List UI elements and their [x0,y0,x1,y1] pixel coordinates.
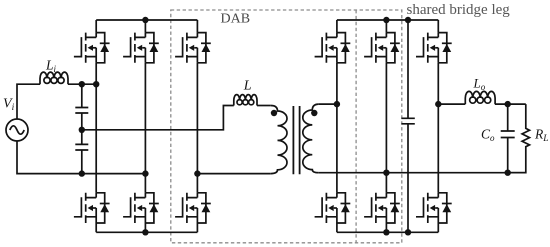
inductor L [234,95,257,106]
right bridge bottom bus [337,231,438,233]
wire right leg1 [336,20,338,232]
ac source Vi [6,119,28,141]
mosfet S5 top left3 [175,33,211,63]
wire Vi bottom return [17,141,145,174]
wire left leg1 [95,20,97,232]
mosfet S4 bottom left2 [123,193,159,223]
wire Vi top to Li [17,84,40,119]
node right top bus cap [405,17,411,23]
mosfet S6 bottom left3 [175,193,211,223]
mosfet S9 top right2 [364,33,400,63]
inductor Li [40,72,68,84]
shared bridge leg dashed divider [355,10,357,243]
wire L to transformer primary [257,105,271,107]
left bridge top bus [96,19,197,21]
node cap branch top [79,81,85,87]
wire left leg2 [144,20,146,232]
capacitor Cdiv1 [75,84,88,130]
mosfet S11 top right3 [416,33,452,63]
node leg1 mid [93,81,99,87]
left bridge bottom bus [96,231,197,233]
capacitor Cdiv2 [75,130,88,174]
wire right leg2 [385,20,387,232]
node secondary-leg1 [334,101,340,107]
capacitor Cdc [401,20,414,232]
wire leg3 to Lo [438,103,465,105]
svg-text:Lo: Lo [473,76,486,93]
svg-text:Li: Li [45,58,57,75]
node return-leg2 [383,170,389,176]
right bridge top bus [337,19,438,21]
DAB dashed box [171,10,402,243]
svg-text:Co: Co [481,127,495,144]
node left leg2 mid [142,170,148,176]
node left leg3 mid [194,170,200,176]
node right bottom bus cap [405,229,411,235]
mosfet S1 top left1 [74,33,110,63]
svg-text:DAB: DAB [221,12,251,27]
svg-text:L: L [243,79,252,94]
capacitor Co [501,104,515,173]
wire secondary bottom output return [319,172,526,174]
wire left leg3 [196,20,198,232]
transformer secondary winding [303,104,319,173]
node right leg3 mid [435,101,441,107]
transformer primary winding [271,106,287,174]
mosfet S3 top left2 [123,33,159,63]
node right bottom bus leg2 [383,229,389,235]
resistor RL [508,104,530,173]
wire secondary top to right leg1 [319,103,337,105]
wire Li to leg1 node [68,83,96,85]
mosfet S7 top right1 [315,33,351,63]
transformer core [293,106,299,174]
polarity dot secondary [311,110,317,116]
node Co top [505,101,511,107]
node left bottom bus leg2 [142,229,148,235]
node left top bus leg2 [142,17,148,23]
node cap bottom [79,170,85,176]
wire Lo to output corner [495,103,526,105]
polarity dot primary [271,110,277,116]
node right top bus leg2 [383,17,389,23]
svg-text:RL: RL [534,127,549,145]
mosfet S8 bottom right1 [315,193,351,223]
wire right leg3 [437,20,439,232]
mosfet S2 bottom left1 [74,193,110,223]
mosfet S10 bottom right2 [364,193,400,223]
inductor Lo [465,91,495,104]
wire primary bottom to left leg3 [197,173,270,175]
node Co bottom [505,170,511,176]
svg-text:shared bridge leg: shared bridge leg [407,2,511,18]
mosfet S12 bottom right3 [416,193,452,223]
svg-text:Vi: Vi [3,97,15,114]
node cap midpoint [79,127,85,133]
wire cap midpoint to L [82,106,234,130]
